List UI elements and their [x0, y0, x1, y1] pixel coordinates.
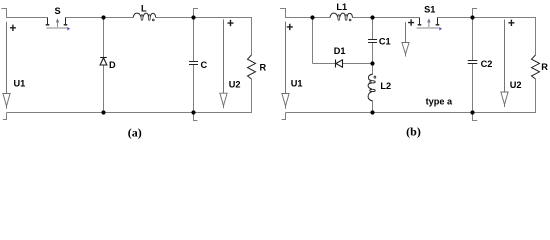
voltage arrow U1 (b) [282, 22, 289, 109]
svg-text:C1: C1 [379, 36, 391, 46]
label type a (b) [426, 97, 453, 107]
node dot top C2 junction (b) [470, 15, 474, 19]
wire right branch with corners (a) [251, 17, 253, 113]
diode D (a) [100, 58, 107, 66]
svg-text:R: R [260, 63, 267, 73]
label L [141, 3, 147, 13]
wire bottom output hook (a) [194, 113, 198, 121]
wire top rail right segment (b) [438, 17, 536, 19]
capacitor C1 (b) [368, 40, 377, 43]
node dot bottom diode junction (a) [101, 110, 105, 114]
wire bottom-left input hook (a) [3, 113, 7, 120]
diode D1 (b) [336, 60, 343, 68]
wire top-left input hook (b) [280, 9, 285, 19]
node dot bottom capacitor junction (a) [191, 110, 195, 114]
resistor R (b) [532, 55, 540, 79]
wire top rail left segment (b) [286, 17, 331, 19]
svg-text:C2: C2 [481, 59, 493, 69]
svg-text:C: C [201, 60, 208, 70]
wire L2 branch lower (b) [372, 101, 374, 113]
caption (a) [128, 125, 142, 139]
capacitor C2 (b) [468, 61, 478, 64]
svg-text:U1: U1 [14, 79, 26, 89]
wire top-left input hook (a) [1, 9, 6, 19]
label S [55, 6, 61, 16]
svg-text:L: L [141, 3, 147, 13]
wire top rail left segment (a) [7, 17, 48, 19]
wire D1 left horizontal (b) [313, 63, 336, 65]
wire D1 left branch vertical (b) [312, 18, 314, 64]
svg-text:U1: U1 [291, 79, 303, 89]
wire C1 branch upper (b) [372, 18, 374, 40]
svg-text:(b): (b) [406, 125, 421, 139]
label L1 [336, 2, 347, 12]
label U2 (a) [229, 80, 241, 90]
svg-text:R: R [541, 62, 548, 72]
label D1 [334, 46, 346, 56]
label L2 [380, 81, 391, 91]
wire top output hook (a) [194, 9, 199, 18]
node dot bottom C2 junction (b) [470, 110, 474, 114]
label C1 [379, 36, 391, 46]
inductor L1 (b) [330, 13, 353, 21]
wire top output hook (b) [473, 9, 478, 18]
voltage arrow U2 (b) [501, 20, 508, 108]
switch S1 MOSFET symbol (b) [417, 18, 442, 31]
inductor L2 vertical (b) [368, 74, 376, 101]
label plus annotation (b) [408, 19, 414, 25]
label plus U2 (b) [508, 20, 514, 26]
label D [109, 60, 116, 70]
label S1 [424, 4, 435, 14]
label R [260, 63, 267, 73]
wire capacitor branch lower (a) [193, 65, 195, 113]
voltage arrow annotation at switch node (b) [402, 22, 409, 56]
node dot top C1 junction (b) [370, 15, 374, 19]
label R (b) [541, 62, 548, 72]
wire diode branch lower (a) [103, 65, 105, 113]
wire top rail middle segment (b) [353, 17, 420, 19]
svg-text:S1: S1 [424, 4, 435, 14]
wire bottom rail (a) [7, 112, 253, 114]
capacitor C (a) [189, 62, 198, 65]
node dot bottom L2 junction (b) [370, 110, 374, 114]
wire L2 branch upper (b) [372, 64, 374, 75]
wire D1 right horizontal (b) [343, 63, 373, 65]
wire bottom rail (b) [286, 112, 537, 114]
voltage arrow U1 (a) [3, 22, 10, 109]
label U1 (b) [291, 79, 303, 89]
label plus U2 (a) [228, 20, 234, 26]
svg-text:L2: L2 [380, 81, 391, 91]
wire bottom output hook (b) [473, 113, 478, 121]
wire bottom-left input hook (b) [282, 113, 286, 120]
wire C1 branch lower (b) [372, 43, 374, 64]
wire C2 branch lower (b) [472, 64, 474, 113]
label plus U1 (b) [287, 24, 293, 30]
svg-text:U2: U2 [229, 80, 241, 90]
wire C2 branch upper (b) [472, 18, 474, 61]
wire right branch with corners (b) [535, 17, 537, 113]
label plus U1 (a) [10, 25, 16, 31]
voltage arrow U2 (a) [220, 19, 227, 108]
svg-text:U2: U2 [510, 80, 522, 90]
node dot D1 C1 L2 junction (b) [370, 61, 374, 65]
wire capacitor branch upper (a) [193, 18, 195, 62]
node dot top capacitor junction (a) [191, 15, 195, 19]
label U1 (a) [14, 79, 26, 89]
label U2 (b) [510, 80, 522, 90]
resistor R (a) [248, 55, 256, 79]
svg-text:D: D [109, 60, 116, 70]
label C2 [481, 59, 493, 69]
svg-text:(a): (a) [128, 125, 142, 139]
caption (b) [406, 125, 421, 139]
label C [201, 60, 208, 70]
svg-text:type a: type a [426, 97, 453, 107]
wire diode branch upper (a) [103, 18, 105, 58]
wire top rail right segment (a) [156, 17, 252, 19]
inductor L (a) [133, 13, 156, 21]
node dot top diode junction (a) [101, 15, 105, 19]
svg-text:L1: L1 [336, 2, 347, 12]
svg-text:D1: D1 [334, 46, 346, 56]
node dot top L1 junction (b) [310, 15, 314, 19]
svg-text:S: S [55, 6, 61, 16]
wire top rail middle segment (a) [66, 17, 134, 19]
switch S MOSFET symbol (a) [46, 18, 70, 31]
